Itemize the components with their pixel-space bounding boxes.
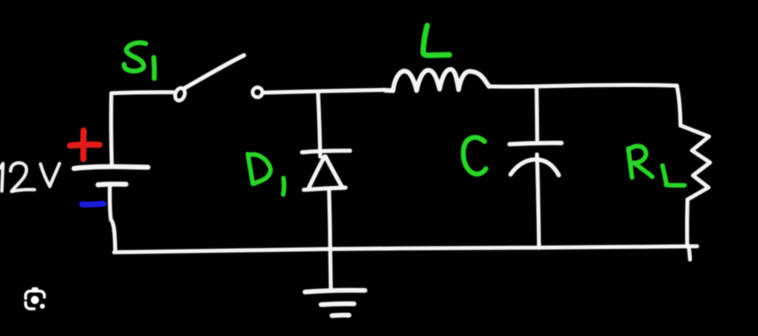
resistor RL right branch top (677, 86, 681, 126)
label D1 (248, 154, 284, 195)
capacitor C top plate (510, 143, 562, 144)
capacitor C bottom lead (537, 155, 539, 248)
resistor RL bottom lead (685, 200, 689, 246)
plus symbol (red) (70, 131, 100, 160)
wire battery top lead to switch (111, 92, 173, 165)
label RL (628, 146, 684, 185)
value label 12V (0, 163, 60, 192)
capacitor C curved plate (511, 159, 559, 175)
diode D1 triangle (304, 157, 346, 190)
resistor RL zigzag (681, 126, 711, 200)
battery bottom lead (110, 187, 116, 252)
switch S1 open contact circle (253, 87, 263, 97)
bottom-right junction tail (689, 246, 690, 260)
bottom bus wire (114, 246, 697, 252)
battery V1 positive plate (74, 167, 148, 169)
diode D1 bottom lead to ground (329, 189, 331, 289)
wire switch to diode node to inductor (263, 90, 385, 93)
label L (423, 26, 449, 56)
wire inductor to cap node to top-right corner (489, 85, 677, 87)
diode D1 top lead (318, 92, 320, 157)
switch S1 blade (184, 55, 244, 88)
capacitor C top lead (535, 87, 540, 140)
battery V1 negative plate (98, 182, 126, 188)
ground symbol (305, 290, 365, 315)
switch S1 hinge contact circle (173, 87, 186, 102)
minus symbol (blue) (82, 201, 104, 208)
inductor L coil (385, 69, 489, 90)
google lens camera icon (26, 287, 45, 309)
label C (463, 137, 486, 174)
diode D1 cathode bar (302, 151, 350, 153)
label S1 (124, 43, 154, 79)
